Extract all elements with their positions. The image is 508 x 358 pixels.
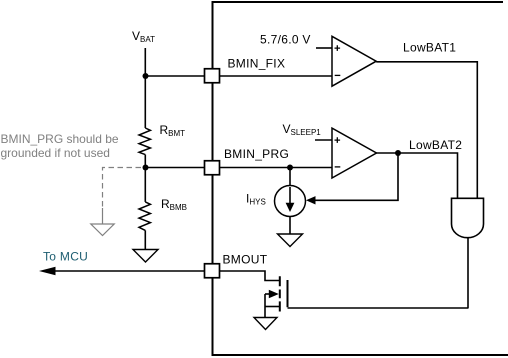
svg-text:BMIN_PRG should be: BMIN_PRG should be <box>1 132 119 146</box>
svg-text:RBMT: RBMT <box>160 123 186 138</box>
svg-text:VBAT: VBAT <box>132 29 155 44</box>
svg-text:To MCU: To MCU <box>43 250 88 264</box>
svg-text:BMOUT: BMOUT <box>223 253 268 267</box>
svg-text:VSLEEP1: VSLEEP1 <box>283 122 322 137</box>
svg-text:LowBAT2: LowBAT2 <box>409 138 462 152</box>
svg-text:LowBAT1: LowBAT1 <box>403 41 456 55</box>
svg-text:IHYS: IHYS <box>246 192 266 207</box>
svg-text:grounded if not used: grounded if not used <box>1 146 110 160</box>
svg-text:BMIN_PRG: BMIN_PRG <box>224 147 289 161</box>
svg-text:BMIN_FIX: BMIN_FIX <box>228 57 286 71</box>
svg-text:RBMB: RBMB <box>161 197 187 212</box>
svg-text:5.7/6.0 V: 5.7/6.0 V <box>260 33 311 47</box>
